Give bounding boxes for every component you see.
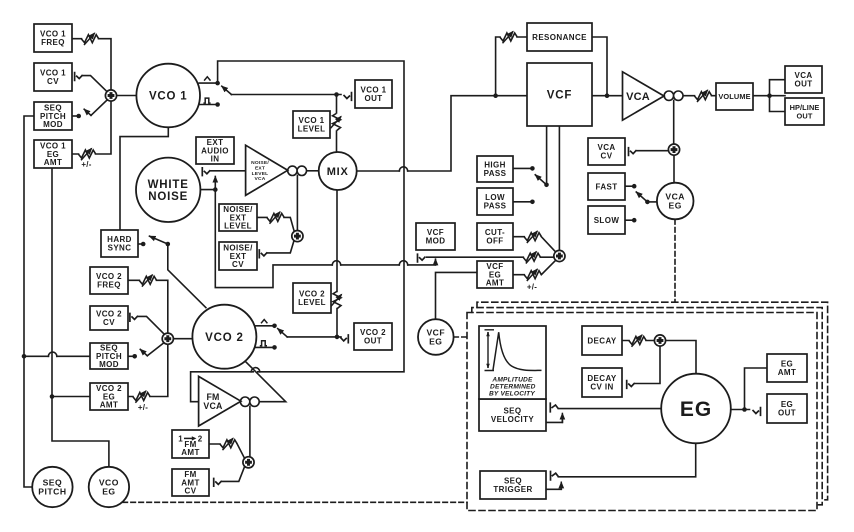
jack VCO1 CV input (75, 72, 83, 81)
hop seq-pitch branch over VCO EG rail (48, 352, 56, 356)
jack FM AMT CV input (214, 478, 222, 487)
wire SEQ PITCH MOD 2 switch arm from S2 (147, 343, 163, 356)
junction VOLUME output branch (767, 93, 772, 98)
sum node S3 (noise/ext level) (292, 231, 303, 242)
oscillator VCO 1 (136, 64, 200, 128)
svg-text:HIGHPASS: HIGHPASS (484, 161, 507, 179)
wire MIX to VCF (357, 96, 527, 171)
svg-text:VCO 1LEVEL: VCO 1LEVEL (298, 116, 326, 134)
normal switch arrow at VCF MOD jack (435, 259, 437, 265)
amplifier VCA (623, 72, 665, 120)
dashed link VCA EG down to EG section frame (674, 220, 676, 302)
block DECAY (582, 326, 622, 355)
contact SEQ PITCH MOD 1 (76, 114, 81, 119)
wire VCA vactrol to VOLUME attenuator (683, 95, 716, 97)
svg-text:+/-: +/- (81, 160, 91, 169)
block SEQPITCHMOD1 (34, 102, 72, 130)
sum node S7 (decay) (654, 335, 665, 346)
wire SEQ TRIGGER jack to EG bottom (558, 444, 695, 477)
envelope VCF EG (418, 319, 454, 355)
attenuator DECAY (629, 335, 646, 347)
wire VCF EG AMT to attenuator to S4 (513, 261, 555, 275)
wire SEQ PITCH rail up to SEQ PITCH MOD 1 (24, 116, 34, 487)
svg-text:WHITENOISE: WHITENOISE (148, 179, 189, 203)
wire DECAY CV IN jack to S7 (635, 346, 660, 383)
wire VCF EG circle up to VCF EG AMT (436, 272, 478, 319)
junction seq pitch rail (22, 354, 27, 359)
svg-text:VCO 2LEVEL: VCO 2LEVEL (298, 290, 326, 308)
sum node S1 (VCO1 pitch) (105, 90, 116, 101)
jack EG OUT (753, 407, 761, 416)
jack VCO2 OUT (340, 334, 348, 343)
attenuator VCO2 EG AMT (133, 391, 150, 403)
wire SEQ PITCH rail branch to SEQ PITCH MOD 2 (24, 355, 90, 357)
wire FM AMT CV jack to S6 (222, 466, 245, 481)
junction resonance return (605, 93, 610, 98)
block CUTOFF (477, 223, 513, 250)
junction vco eg rail (50, 394, 55, 399)
block HARDSYNC (101, 230, 138, 257)
attenuator VCF EG AMT (524, 269, 541, 281)
block VCO1FREQ (34, 24, 72, 52)
attenuator VCO2 LEVEL (331, 292, 342, 309)
hop MIX output over feedback vertical (399, 167, 407, 171)
dashed link VCF EG to EG section frame (454, 336, 467, 338)
wire resonance tap up to attenuator (496, 37, 527, 96)
wire VCO1 FREQ to sum node S1 (72, 39, 111, 90)
jack VCF MOD input (418, 253, 426, 262)
pivot HP/LP switch (544, 183, 549, 188)
block EGAMT (767, 354, 807, 382)
junction VCO1 OUT tap (334, 92, 339, 97)
pulse wave glyph VCO2 (260, 341, 267, 346)
svg-text:DECAYCV IN: DECAYCV IN (587, 374, 617, 392)
block VCO1LEVEL (293, 111, 330, 138)
vactrol circles VCA (664, 91, 683, 100)
jack VCO1 OUT (344, 92, 352, 101)
contact LOW PASS (530, 200, 535, 205)
block VCO2FREQ (90, 267, 128, 294)
block FMAMTCV (172, 469, 209, 496)
wire S5 down to VCA EG (673, 155, 675, 182)
wire LOW PASS to contact (513, 201, 531, 203)
block SEQVELOCITY (479, 399, 546, 431)
contact VCO1 triangle (215, 81, 220, 86)
pulse wave glyph VCO1 (203, 98, 210, 103)
svg-text:LOWPASS: LOWPASS (484, 193, 507, 211)
svg-text:VCA: VCA (626, 91, 650, 103)
normal arrow SEQ TRIGGER (560, 482, 562, 489)
wire HIGH PASS to contact (513, 167, 531, 169)
pivot HARD SYNC (166, 242, 171, 247)
triangle wave glyph VCO2 (261, 320, 267, 324)
hop bottom loop line over FM diagonal (251, 368, 259, 372)
wire VCO1 switch pivot to VCO1 OUT jack (231, 94, 341, 96)
svg-text:VCF: VCF (547, 90, 572, 102)
wire VCO EG rail branch to VCO2 EG AMT (52, 396, 90, 398)
attenuator NOISE/EXT LEVEL (267, 212, 284, 224)
wire FM VCA vactrol down to S6 (249, 406, 251, 456)
svg-text:RESONANCE: RESONANCE (532, 33, 587, 42)
contact FAST (632, 184, 637, 189)
wire VOLUME to output branch (753, 80, 785, 112)
wire SLOW to contact (625, 219, 632, 221)
jack EXT AUDIO IN (202, 167, 210, 176)
contact VCO1 pulse (215, 102, 220, 107)
sum node S5 (VCA cv) (668, 144, 679, 155)
svg-text:VOLUME: VOLUME (718, 92, 750, 101)
block FAST (588, 173, 625, 200)
svg-text:CUT-OFF: CUT-OFF (485, 228, 505, 246)
wire SEQ VELOCITY normal to jack (546, 416, 562, 422)
wire SEQ VELOCITY jack to EG (558, 408, 661, 410)
block VOLUME (716, 83, 753, 110)
block VCO2OUT (354, 323, 392, 350)
svg-text:VCFMOD: VCFMOD (426, 228, 446, 246)
svg-text:MIX: MIX (327, 166, 349, 178)
wire RESONANCE out down to VCA input (592, 37, 607, 96)
attenuator VCO1 FREQ (82, 33, 99, 45)
hop noise line over feedback vertical (399, 261, 407, 265)
block RESONANCE (527, 23, 592, 51)
EG section dashed frame (back) (477, 302, 828, 500)
wire noise vactrol down to S3 (296, 176, 298, 231)
block VCF (527, 63, 592, 126)
jack SEQ VELOCITY (550, 402, 558, 412)
block VCO2LEVEL (293, 283, 331, 313)
wire VCO1 CV jack to sum node S1 (83, 76, 108, 92)
attenuator VCO1 LEVEL (331, 114, 342, 131)
jack VCO2 CV input (130, 313, 138, 322)
svg-text:VCO 2FREQ: VCO 2FREQ (96, 272, 122, 290)
wire SEQ PITCH MOD 2 contact stub (128, 355, 133, 357)
svg-text:FAST: FAST (595, 182, 617, 191)
jack NOISE/EXT CV input (259, 249, 267, 258)
block HPLINEOUT (785, 98, 824, 125)
sequencer SEQ PITCH (32, 467, 72, 507)
svg-text:EG: EG (680, 398, 712, 421)
switch arm VCO1 waveform arrow (222, 86, 232, 94)
attenuator 1-2 FM AMT (220, 438, 237, 450)
block NOISEEXTLEVEL (219, 204, 257, 231)
svg-text:VCAOUT: VCAOUT (794, 71, 812, 89)
wire VCA EG to FAST/SLOW switch pivot (647, 201, 656, 203)
contact HARD SYNC (141, 242, 146, 247)
wire VCO2 switch pivot to VCO2 OUT jack (287, 336, 341, 338)
attenuator RESONANCE (500, 31, 517, 43)
velocity amplitude graph (479, 326, 546, 399)
wire VCA vactrol down to S5 (673, 100, 675, 143)
block EXTAUDIOIN (196, 137, 234, 164)
wire VCF to HP/LP switch pivot (546, 126, 548, 185)
mixer MIX (319, 152, 357, 190)
contact VCO2 triangle (272, 324, 277, 329)
junction VCO2 OUT tap (335, 335, 340, 340)
attenuator VOLUME (695, 90, 712, 102)
wire VCO2 CV jack to sum S2 (138, 316, 163, 333)
switch arm HP/LP arrow (535, 175, 546, 185)
contact SEQ PITCH MOD 2 (132, 354, 137, 359)
vactrol circles noise VCA (288, 166, 307, 175)
block SEQTRIGGER (480, 471, 546, 499)
block VCFEGAMT (477, 261, 513, 288)
switch arm FAST/SLOW arrow (636, 192, 647, 202)
wire NOISE/EXT CV jack to S3 (267, 241, 294, 253)
block VCAOUT (785, 66, 822, 93)
svg-text:AMPLITUDEDETERMINEDBY VELOCITY: AMPLITUDEDETERMINEDBY VELOCITY (489, 376, 536, 397)
envelope generator EG (661, 374, 731, 444)
contact HIGH PASS (530, 166, 535, 171)
wire FAST to contact (625, 185, 632, 187)
wire S7 to EG circle (666, 341, 696, 374)
wire SEQ PITCH MOD 1 contact stub (72, 115, 77, 117)
block VCO2CV (90, 306, 128, 330)
label 1 to 2 with arrow (178, 434, 203, 443)
wire VCO EG rail up to VCO1 EG AMT (52, 168, 109, 467)
wire FM VCA vactrol to VCO2 FM diagonal (246, 362, 286, 402)
svg-text:DECAY: DECAY (587, 336, 617, 345)
normal switch white noise up-arrow at EXT AUDIO IN jack (214, 177, 216, 190)
svg-text:SLOW: SLOW (594, 216, 620, 225)
wire VCF sum S4 up to VCF (558, 126, 560, 250)
block LOWPASS (477, 188, 513, 215)
wire HARD SYNC pivot down to VCO2 (168, 244, 206, 308)
switch arm SEQ PITCH MOD 1 arrow (84, 109, 91, 115)
white noise source (136, 158, 200, 222)
jack SEQ TRIGGER (551, 471, 559, 481)
block VCO2EGAMT (90, 383, 128, 410)
sum node S4 (VCF cutoff) (554, 250, 565, 261)
wire VCA CV jack to S5 (637, 150, 669, 152)
wire VCO2 triangle output to contact (256, 325, 273, 327)
wire CUT-OFF to attenuator to S4 (513, 237, 555, 252)
triangle wave glyph VCO1 (204, 77, 210, 81)
jack VCA CV input (629, 147, 637, 156)
sum node S2 (VCO2 pitch) (162, 333, 173, 344)
wire SEQ PITCH MOD 1 switch arm from S1 (91, 100, 107, 116)
hop noise line over MIX-VCO2 vertical (332, 261, 340, 265)
attenuator CUT-OFF (524, 231, 541, 243)
switch arm HARD SYNC arrow (150, 236, 168, 244)
svg-text:VCO 1FREQ: VCO 1FREQ (40, 30, 66, 48)
switch arm SEQ PITCH MOD 2 arrow (140, 349, 147, 355)
EG section dashed frame (middle) (472, 308, 822, 505)
wire HARD SYNC contact stub (138, 243, 142, 245)
junction white noise (213, 187, 218, 192)
svg-text:VCO 2: VCO 2 (205, 332, 244, 344)
block VCFMOD (416, 223, 455, 250)
envelope VCO EG (89, 467, 129, 507)
svg-text:1: 1 (178, 434, 183, 443)
block SLOW (588, 206, 625, 234)
wire NOISE/EXT LEVEL to attenuator to S3 (257, 217, 294, 231)
wire VCF MOD jack line to attenuator to S4 (427, 256, 554, 258)
block DECAYCVIN (582, 368, 622, 397)
switch arm VCO2 waveform arrow (278, 329, 288, 337)
svg-text:+/-: +/- (527, 283, 537, 292)
wire EXT AUDIO IN jack to noise VCA (210, 170, 245, 172)
block VCO1OUT (355, 80, 392, 108)
svg-text:2: 2 (198, 434, 203, 443)
wire white noise to junction (201, 189, 216, 191)
attenuator VCF MOD (523, 252, 540, 264)
block VCO1EGAMT (34, 140, 72, 168)
jack DECAY CV IN (627, 380, 635, 389)
amplifier FM VCA (199, 376, 241, 426)
wire VCO1 wave contact up to feedback loop (191, 61, 404, 402)
wire noise VCA to MIX (307, 170, 319, 172)
wire S2 down to VCO2 EG AMT attenuator (128, 344, 168, 396)
attenuator VCO2 FREQ (139, 275, 156, 287)
wire VCO1 bottom to HARD SYNC box (120, 127, 168, 230)
wire VCO1 pulse output to contact (199, 104, 216, 106)
svg-text:+/-: +/- (138, 403, 148, 412)
block VCO1CV (34, 63, 72, 91)
EG section dashed frame (front) (467, 313, 817, 511)
wire sum node S1 to VCO1 (117, 95, 136, 97)
wire sum node S1 down to VCO1 EG AMT attenuator (72, 101, 111, 154)
wire VCO1 triangle output to contact (199, 82, 216, 84)
pivot FAST/SLOW switch (645, 200, 650, 205)
svg-text:VCO 1: VCO 1 (149, 91, 188, 103)
svg-text:HARDSYNC: HARDSYNC (107, 235, 132, 253)
contact SLOW (632, 218, 637, 223)
vactrol circles FM VCA (240, 397, 259, 406)
attenuator VCO1 EG AMT (79, 148, 96, 160)
block SEQPITCHMOD2 (90, 343, 128, 369)
junction resonance tap (493, 93, 498, 98)
block HIGHPASS (477, 156, 513, 182)
wire VCO2 OUT tap up through VCO2 LEVEL attenuator to MIX (336, 190, 338, 337)
wire 1-2 FM AMT to attenuator to S6 (209, 444, 244, 459)
block 12FMAMT (172, 430, 209, 458)
svg-text:VCFEG: VCFEG (426, 328, 445, 347)
contact VCO2 pulse (272, 345, 277, 350)
wire EG to EG OUT jack (731, 409, 750, 411)
wire VCO1 OUT line down through VCO1 LEVEL attenuator to MIX (336, 95, 338, 153)
dashed link VCO EG to EG section frame (123, 501, 467, 503)
wire VCO2 FREQ to attenuator to sum S2 (128, 280, 168, 333)
wire DECAY to attenuator to S7 (622, 340, 654, 342)
block VCACV (588, 138, 625, 165)
oscillator VCO 2 (192, 305, 256, 369)
wire VCO2 pulse output to contact (256, 346, 273, 348)
wire EG branch up to EG AMT (745, 368, 768, 410)
wire VCF to VCA (592, 95, 623, 97)
block EGOUT (767, 394, 807, 423)
normal arrow SEQ VELOCITY (561, 414, 563, 423)
junction EG output (742, 407, 747, 412)
wire sum S2 to VCO2 (173, 338, 192, 340)
envelope VCA EG (657, 183, 694, 220)
wire white noise junction down and right to VCF MOD normal (215, 190, 435, 288)
block NOISEEXTCV (219, 242, 257, 270)
amplifier NOISE/EXT LEVEL VCA (246, 145, 288, 195)
sum node S6 (FM amount) (243, 457, 254, 468)
wire SEQ TRIGGER normal to jack (546, 485, 561, 489)
